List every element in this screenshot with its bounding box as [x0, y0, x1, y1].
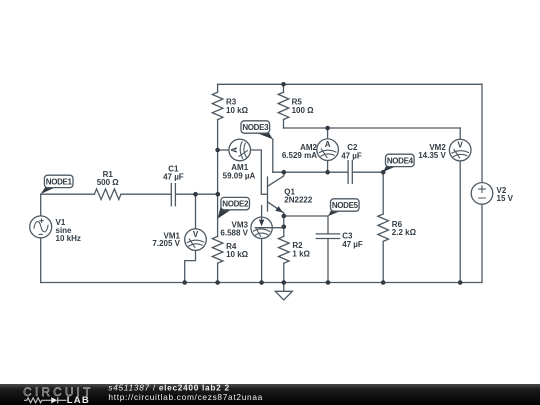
node NODE1 flag [41, 175, 73, 194]
junction top rail R5 [281, 82, 286, 87]
wire emitter column [283, 216, 285, 236]
wire R5 bottom stub [283, 120, 285, 129]
voltage source V2 [471, 183, 513, 205]
svg-text:7.205 V: 7.205 V [152, 239, 180, 248]
transistor Q1 2N2222 [268, 172, 313, 216]
ammeter AM1 [223, 139, 256, 180]
junction AM2 top [325, 126, 330, 131]
svg-text:V: V [458, 141, 464, 150]
wire V2 column lower [481, 204, 483, 283]
wire AM2 top stub [327, 128, 329, 139]
resistor R3 [212, 92, 248, 119]
junction Q1 emitter [282, 214, 287, 219]
wire R6 top stub [382, 172, 384, 214]
wire VM3 bottom stub [261, 239, 263, 283]
wire top supply rail [218, 83, 482, 85]
svg-text:500 Ω: 500 Ω [97, 178, 120, 187]
junction R4 ground [215, 280, 220, 285]
ammeter AM2 [282, 139, 339, 161]
junction VM1 tap [193, 192, 198, 197]
wire V1 top stub [40, 194, 42, 216]
svg-text:59.09 µA: 59.09 µA [223, 171, 256, 180]
CircuitLab logo [23, 387, 92, 405]
junction Q1 collector [282, 170, 287, 175]
wire emitter to NODE5 [284, 215, 328, 217]
svg-text:10 kΩ: 10 kΩ [226, 106, 249, 115]
svg-text:6.529 mA: 6.529 mA [282, 151, 317, 160]
wire C2 to NODE4 [353, 171, 383, 173]
resistor R2 [279, 236, 311, 263]
resistor R1 [94, 170, 121, 200]
sine source V1 [30, 216, 81, 243]
junction AM2 collector [325, 170, 330, 175]
wire V2 column upper [481, 84, 483, 183]
svg-text:10 kΩ: 10 kΩ [226, 250, 249, 259]
svg-text:47 µF: 47 µF [341, 152, 362, 161]
wire R1 to C1 [121, 193, 171, 195]
wire R6 bottom stub [382, 241, 384, 282]
junction C3 ground [326, 280, 331, 285]
svg-text:1 kΩ: 1 kΩ [292, 249, 310, 258]
svg-text:47 µF: 47 µF [342, 240, 363, 249]
junction AM1 tap [215, 148, 220, 153]
wire AM1 right to base [250, 150, 266, 194]
resistor R5 [278, 92, 314, 119]
node NODE3 flag [241, 121, 273, 140]
wire R3 top stub [217, 84, 219, 92]
wire C3 top stub [327, 216, 329, 234]
svg-text:V: V [193, 230, 199, 239]
resistor R6 [378, 214, 417, 241]
junction VM3 tap [282, 225, 287, 230]
capacitor C1 [163, 164, 184, 205]
ground symbol [275, 283, 292, 301]
wire VM1 top stub [195, 194, 197, 229]
wire VM2 top stub [459, 128, 461, 139]
wire R3 bottom / base node column [217, 120, 219, 195]
voltmeter VM3 (probe style) [220, 206, 283, 239]
node NODE2 flag [218, 197, 250, 218]
svg-text:15 V: 15 V [497, 194, 514, 203]
wire C1 to base node [176, 193, 218, 195]
voltmeter VM2 [418, 139, 471, 161]
svg-text:A: A [325, 140, 331, 149]
svg-text:14.35 V: 14.35 V [418, 151, 446, 160]
svg-text:NODE5: NODE5 [332, 201, 359, 210]
wire AM1 left [218, 149, 229, 151]
svg-text:2.2 kΩ: 2.2 kΩ [392, 228, 417, 237]
resistor R4 [212, 236, 248, 263]
wire VM2 bottom to ground rail [459, 161, 461, 283]
svg-text:NODE2: NODE2 [222, 200, 249, 209]
wire R2 bottom stub [283, 263, 285, 282]
svg-text:6.588 V: 6.588 V [220, 228, 248, 237]
svg-text:NODE3: NODE3 [242, 123, 269, 132]
svg-text:47 µF: 47 µF [163, 173, 184, 182]
svg-text:http://circuitlab.com/cezs87at: http://circuitlab.com/cezs87at2unaa [108, 392, 263, 402]
voltmeter VM1 [152, 229, 206, 251]
junction base node / NODE2 [216, 192, 221, 197]
junction VM1 ground [182, 280, 187, 285]
svg-text:NODE4: NODE4 [387, 157, 414, 166]
wire R4 top stub [217, 194, 219, 236]
wire V1 to R1 [41, 193, 95, 195]
junction R2 ground [282, 280, 287, 285]
node NODE5 flag [328, 199, 359, 216]
capacitor C2 [341, 143, 362, 183]
svg-text:A: A [230, 147, 239, 153]
wire VM1 to ground rail (jog) [185, 250, 196, 282]
junction R6 ground [381, 280, 386, 285]
wire C3 bottom stub [327, 239, 329, 283]
node NODE4 flag [383, 154, 414, 172]
junction NODE4 R6 [381, 170, 386, 175]
junction VM2 ground [458, 280, 463, 285]
svg-text:NODE1: NODE1 [46, 178, 73, 187]
svg-text:LAB: LAB [67, 395, 90, 405]
junction VM3 ground [259, 280, 264, 285]
svg-text:100 Ω: 100 Ω [292, 106, 315, 115]
wire bottom ground rail [41, 282, 482, 284]
wire collector to C2 [273, 171, 348, 173]
svg-text:s4511387 / elec2400 lab2 2: s4511387 / elec2400 lab2 2 [108, 382, 229, 392]
svg-text:10 kHz: 10 kHz [56, 234, 81, 243]
capacitor C3 [316, 232, 363, 249]
wire R5 top stub [283, 84, 285, 92]
wire V1 bottom stub [40, 238, 42, 283]
wire NODE3 stub [272, 139, 274, 172]
footer text [108, 382, 263, 402]
svg-text:2N2222: 2N2222 [284, 195, 313, 204]
wire R4 bottom stub [217, 263, 219, 282]
wire mid rail R5 to VM2 [284, 127, 461, 129]
wire AM2 bottom stub [327, 161, 329, 173]
